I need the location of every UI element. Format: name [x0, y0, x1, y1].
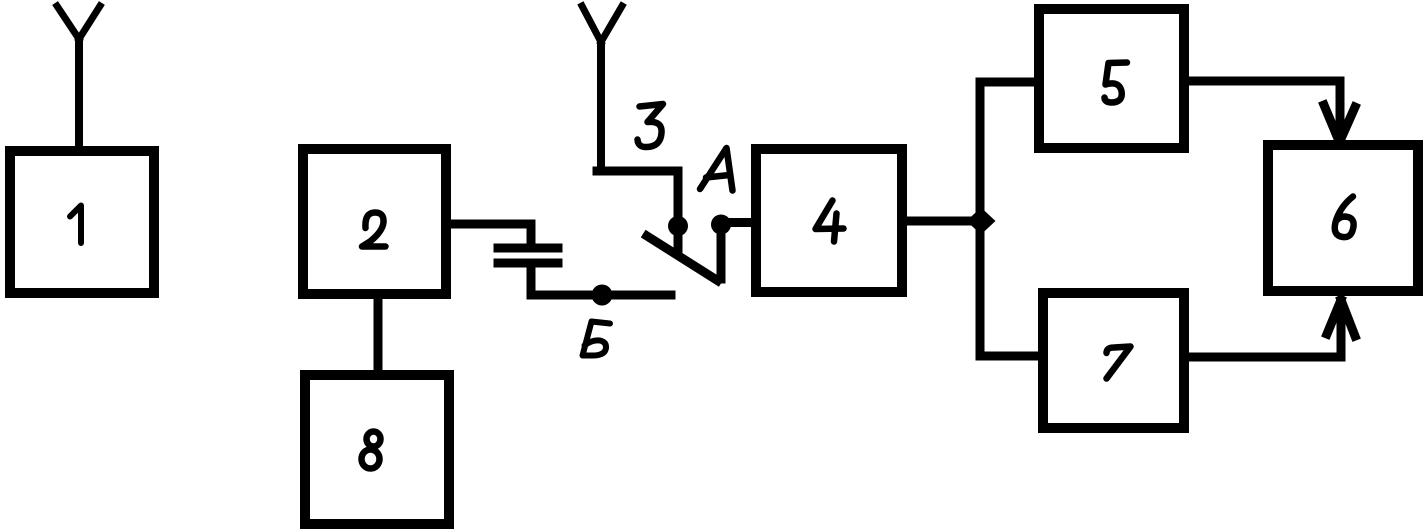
arrowhead up into block 6: [1327, 300, 1355, 336]
switch pole stub: [674, 228, 683, 253]
node A dot: [711, 215, 731, 235]
node A stub: [717, 228, 726, 279]
antenna W2: [582, 6, 622, 170]
wire block 7 to block 6: [1189, 308, 1341, 357]
wire bus to block 7: [980, 352, 1036, 361]
label B: [583, 322, 611, 356]
wire bus to block 5: [980, 78, 1036, 87]
label 3: [638, 104, 664, 147]
block 4: [756, 149, 902, 292]
label 2: [362, 213, 386, 247]
label 6: [1335, 197, 1354, 238]
wire block 5 to block 6: [1189, 81, 1340, 132]
wire junction vertical bus: [976, 82, 985, 356]
label 5: [1105, 63, 1128, 103]
label 7: [1107, 347, 1131, 379]
label 4: [816, 201, 844, 242]
antenna W1: [57, 6, 100, 148]
block 1: [10, 151, 154, 293]
wire block2 to capacitor: [451, 224, 531, 244]
label A: [700, 148, 733, 191]
node B dot: [592, 285, 613, 306]
junction node: [967, 208, 996, 235]
block 2: [303, 149, 446, 294]
switch arm: [647, 236, 718, 281]
block 8: [305, 375, 449, 524]
switch SA1 pole dot: [668, 216, 688, 236]
capacitor C1: [498, 248, 558, 263]
wire antenna W2 to switch pole: [597, 171, 678, 220]
label 1: [70, 206, 81, 244]
block 5: [1039, 9, 1184, 148]
arrowhead down into block 6: [1324, 105, 1355, 141]
block 6: [1268, 145, 1418, 291]
label 8: [362, 432, 381, 469]
wire block 4 to junction: [907, 217, 978, 226]
wire capacitor to node B: [531, 267, 671, 295]
wire block 2 to block 8: [374, 297, 383, 372]
wire node A to block 4: [721, 218, 753, 227]
block 7: [1043, 293, 1184, 428]
